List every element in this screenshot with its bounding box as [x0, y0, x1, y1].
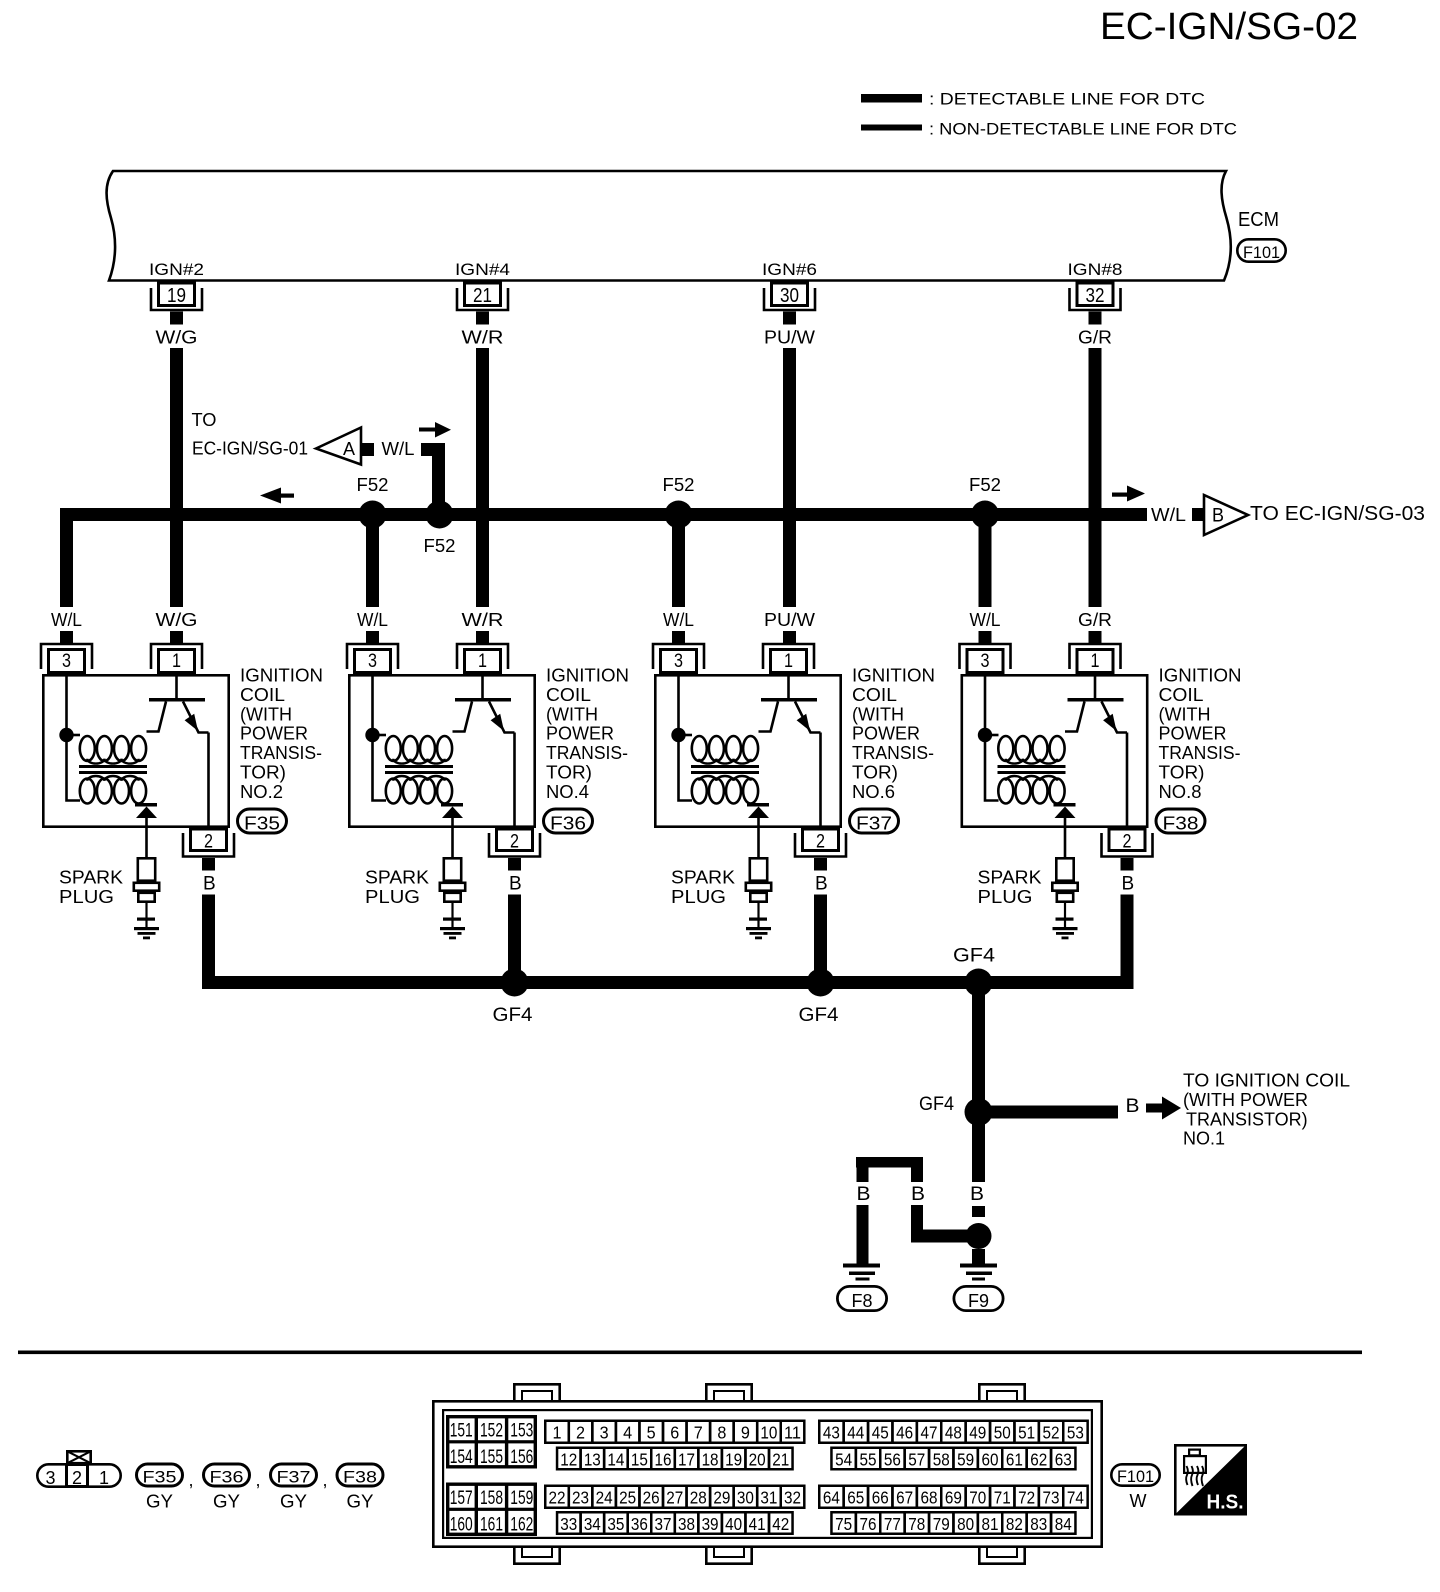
svg-text:26: 26 [643, 1488, 660, 1508]
wire W/L stub into coil pin 3 [979, 631, 992, 643]
junction F52 (2, W/L branch) [426, 501, 454, 529]
svg-text:GF4: GF4 [493, 1005, 533, 1026]
svg-text:TOR): TOR) [852, 763, 898, 783]
svg-text:153: 153 [510, 1421, 533, 1442]
wire secondary to spark plug [1064, 818, 1067, 857]
coil NO.8 pin 3 [960, 644, 1011, 673]
svg-text:GF4: GF4 [953, 946, 995, 967]
ground F9 [960, 1249, 997, 1281]
svg-text:W/L: W/L [970, 610, 1001, 630]
wire B U-link left leg (lower, to F8) [857, 1205, 869, 1266]
svg-text:GY: GY [347, 1492, 374, 1512]
reference text TO IGNITION COIL NO.1 [1183, 1071, 1350, 1149]
wire coil NO.4 pin 3 to secondary [373, 674, 387, 801]
off-page connector B [1204, 495, 1248, 535]
label IGNITION COIL NO.4 [546, 666, 629, 802]
coil NO.4 pin 3 [347, 644, 398, 673]
wire B coil NO.4 to ground bus [508, 895, 521, 977]
svg-text:A: A [343, 439, 355, 459]
svg-text:GY: GY [146, 1492, 173, 1512]
wire G/R from ECM pin to coil pin 1 [1089, 348, 1102, 607]
svg-text:F37: F37 [277, 1467, 311, 1486]
svg-text:32: 32 [784, 1488, 801, 1508]
svg-text:36: 36 [631, 1514, 648, 1534]
wire label G/R (top) [1078, 328, 1112, 348]
svg-text:TOR): TOR) [240, 763, 286, 783]
wire B U-link left leg (upper) [857, 1167, 869, 1182]
svg-text:13: 13 [584, 1450, 601, 1470]
svg-text:IGNITION: IGNITION [1159, 666, 1242, 686]
arrow right (bus toward B) [1112, 486, 1145, 502]
legend: detectable line for DTC [861, 90, 1205, 109]
wire label W/L (bus right end) [1151, 505, 1186, 525]
svg-text:(WITH: (WITH [240, 704, 292, 724]
svg-text:(WITH: (WITH [546, 704, 598, 724]
coil NO.6 secondary winding [692, 776, 758, 804]
svg-text:20: 20 [749, 1450, 766, 1470]
svg-text:2: 2 [204, 832, 213, 853]
coil NO.4 secondary winding [386, 776, 452, 804]
svg-text:2: 2 [510, 832, 519, 853]
svg-text:6: 6 [670, 1423, 679, 1443]
svg-text:157: 157 [450, 1488, 473, 1509]
svg-text:16: 16 [654, 1450, 671, 1470]
svg-text:160: 160 [450, 1515, 473, 1536]
svg-text:COIL: COIL [240, 685, 285, 705]
label GF4 (4) [919, 1094, 954, 1115]
wire label B (to NO.1) [1126, 1096, 1140, 1117]
svg-text:W/G: W/G [156, 610, 198, 630]
off-page connector A [316, 428, 361, 465]
ECM pin 30 (IGN#6) [762, 260, 817, 325]
wire label B (coil NO.6) [815, 874, 828, 895]
svg-text:82: 82 [1006, 1514, 1023, 1534]
wire B U-link to F9 junction [911, 1230, 968, 1243]
svg-text:GY: GY [213, 1492, 240, 1512]
coil NO.8 pin 1 [1070, 644, 1121, 673]
svg-text:83: 83 [1030, 1514, 1047, 1534]
svg-text:4: 4 [623, 1423, 632, 1443]
svg-text:69: 69 [945, 1488, 962, 1508]
svg-text:35: 35 [607, 1514, 624, 1534]
svg-text:F38: F38 [343, 1467, 377, 1486]
wire W/L bus left drop to coil NO.2 pin 3 [60, 508, 73, 607]
svg-text:5: 5 [647, 1423, 656, 1443]
svg-text:IGN#2: IGN#2 [149, 260, 204, 279]
secondary diode [135, 803, 157, 818]
svg-text:81: 81 [982, 1514, 999, 1534]
junction F52 (3) [665, 501, 693, 529]
svg-text:42: 42 [772, 1514, 789, 1534]
svg-text:B: B [970, 1184, 984, 1205]
svg-text:41: 41 [749, 1514, 766, 1534]
ground (spark plug) [1053, 927, 1078, 939]
wire label W/L (above coil pin 3) [51, 610, 82, 630]
svg-text:28: 28 [690, 1488, 707, 1508]
power transistor (coil NO.8) [1065, 674, 1127, 828]
power transistor (coil NO.6) [759, 674, 821, 828]
wire B U-link top bar [856, 1157, 923, 1168]
svg-text:19: 19 [725, 1450, 742, 1470]
wire coil NO.2 pin 3 to secondary [67, 674, 81, 801]
wire W/L branch (corner to bus) [421, 443, 445, 508]
wire W/R stub into coil pin 1 [476, 631, 489, 643]
svg-text:,: , [256, 1470, 261, 1490]
svg-text:: NON-DETECTABLE LINE FOR DTC: : NON-DETECTABLE LINE FOR DTC [929, 120, 1237, 139]
power transistor (coil NO.2) [147, 674, 209, 828]
svg-text:57: 57 [908, 1450, 925, 1470]
terminal square (B) [1192, 508, 1205, 521]
svg-text:IGN#4: IGN#4 [455, 260, 510, 279]
svg-text:F52: F52 [357, 475, 389, 495]
ECM pin 32 (IGN#8) [1068, 260, 1123, 325]
svg-text:B: B [1122, 874, 1135, 895]
coil NO.8 secondary winding [998, 776, 1064, 804]
wire label W/L (above coil pin 3) [357, 610, 388, 630]
label IGNITION COIL NO.2 [240, 666, 323, 802]
svg-text:1: 1 [1091, 651, 1100, 672]
label F52 (below junction 2) [424, 536, 456, 556]
connector F9 [954, 1286, 1003, 1311]
svg-text:F35: F35 [244, 813, 280, 833]
svg-text:31: 31 [760, 1488, 777, 1508]
wire label W/G (top) [156, 328, 198, 348]
coil NO.8 pin 2 [1102, 829, 1153, 871]
spark plug [134, 858, 159, 928]
label W [1130, 1491, 1147, 1511]
svg-text:2: 2 [816, 832, 825, 853]
label GY (F36) [213, 1492, 240, 1512]
svg-text:B: B [203, 874, 216, 895]
svg-text:71: 71 [994, 1488, 1011, 1508]
svg-text:58: 58 [933, 1450, 950, 1470]
coil connector pin view (3 2 1) [37, 1451, 120, 1488]
svg-text:F52: F52 [969, 475, 1001, 495]
svg-text:SPARK: SPARK [59, 868, 123, 888]
svg-text:F52: F52 [424, 536, 456, 556]
arrow to ignition coil NO.1 [1146, 1097, 1181, 1120]
svg-text:F36: F36 [210, 1467, 244, 1486]
connector F38 (coil NO.8) [1156, 809, 1205, 833]
spark plug [746, 858, 771, 928]
svg-text:EC-IGN/SG-01: EC-IGN/SG-01 [192, 439, 308, 459]
label F52 (above junction 3) [663, 475, 695, 495]
svg-text:PLUG: PLUG [59, 887, 114, 907]
coil NO.2 secondary winding [80, 776, 146, 804]
svg-text:F36: F36 [550, 813, 586, 833]
svg-text:W/L: W/L [663, 610, 694, 630]
coil NO.2 pin 2 [183, 829, 234, 871]
svg-text:NO.2: NO.2 [240, 782, 283, 802]
ground F8 [843, 1264, 880, 1281]
label GY (F38) [347, 1492, 374, 1512]
svg-text:SPARK: SPARK [978, 868, 1042, 888]
svg-text:H.S.: H.S. [1207, 1492, 1244, 1514]
svg-text:23: 23 [572, 1488, 589, 1508]
svg-text:F52: F52 [663, 475, 695, 495]
svg-text:74: 74 [1067, 1488, 1084, 1508]
svg-text:IGNITION: IGNITION [240, 666, 323, 686]
label SPARK PLUG [671, 868, 735, 907]
coil NO.4 pin 2 [489, 829, 540, 871]
label IGNITION COIL NO.6 [852, 666, 935, 802]
spark plug [1052, 858, 1077, 928]
svg-text:IGNITION: IGNITION [546, 666, 629, 686]
wire label W/R (above coil) [462, 610, 504, 630]
junction GF4 (1) [501, 969, 529, 997]
svg-text:14: 14 [607, 1450, 624, 1470]
svg-text:GF4: GF4 [919, 1094, 954, 1115]
ground (spark plug) [440, 927, 465, 939]
svg-text:2: 2 [72, 1468, 82, 1488]
wire label B (right leg) [911, 1184, 925, 1205]
ECM box [107, 171, 1231, 281]
svg-text:159: 159 [510, 1488, 533, 1509]
secondary diode [1054, 803, 1076, 818]
svg-text:62: 62 [1030, 1450, 1047, 1470]
coil NO.4 pin 1 [457, 644, 508, 673]
svg-text:F8: F8 [852, 1291, 873, 1311]
svg-text:52: 52 [1043, 1423, 1060, 1443]
wire label PU/W (top) [764, 328, 815, 348]
ignition coil NO.4 box [349, 675, 534, 826]
svg-text:1: 1 [99, 1468, 109, 1488]
wire W/G stub into coil pin 1 [170, 631, 183, 643]
separator line [18, 1351, 1362, 1355]
svg-text:PLUG: PLUG [671, 887, 726, 907]
svg-text:B: B [815, 874, 828, 895]
svg-text:56: 56 [884, 1450, 901, 1470]
coil NO.2 primary winding [67, 735, 147, 764]
svg-text:W/R: W/R [462, 610, 504, 630]
wire label W/L (above coil pin 3) [970, 610, 1001, 630]
svg-text:154: 154 [450, 1447, 473, 1468]
svg-text:46: 46 [896, 1423, 913, 1443]
svg-text:TOR): TOR) [1159, 763, 1205, 783]
label GF4 (3) [953, 946, 995, 967]
spark plug [440, 858, 465, 928]
svg-text:19: 19 [167, 285, 186, 307]
svg-text:PU/W: PU/W [764, 610, 815, 630]
svg-text:TOR): TOR) [546, 763, 592, 783]
label GF4 (2) [799, 1005, 839, 1026]
junction dot (primary tap) [365, 728, 379, 742]
label GF4 (1) [493, 1005, 533, 1026]
svg-text:50: 50 [994, 1423, 1011, 1443]
junction F52 (1) [359, 501, 387, 529]
svg-text:9: 9 [741, 1423, 750, 1443]
arrow left (on W/L bus) [260, 488, 294, 504]
svg-text:TRANSIS-: TRANSIS- [240, 743, 322, 763]
power transistor (coil NO.4) [453, 674, 515, 828]
svg-text:68: 68 [921, 1488, 938, 1508]
secondary diode [441, 803, 463, 818]
wire B drop toward F9 [972, 1119, 985, 1183]
wire secondary to spark plug [145, 818, 148, 857]
svg-text:12: 12 [560, 1450, 577, 1470]
svg-text:SPARK: SPARK [671, 868, 735, 888]
coil NO.4 primary winding [373, 735, 453, 764]
coil NO.2 pin 1 [151, 644, 202, 673]
wire B U-link right leg (lower) [911, 1205, 923, 1243]
svg-text:NO.8: NO.8 [1159, 782, 1202, 802]
wire PU/W from ECM pin to coil pin 1 [783, 348, 796, 607]
wire coil NO.6 pin 3 to secondary [679, 674, 693, 801]
svg-text:51: 51 [1018, 1423, 1035, 1443]
coil NO.6 primary winding [679, 735, 759, 764]
svg-text:59: 59 [957, 1450, 974, 1470]
svg-text:B: B [911, 1184, 925, 1205]
svg-text:73: 73 [1043, 1488, 1060, 1508]
svg-text:GF4: GF4 [799, 1005, 839, 1026]
svg-text:21: 21 [772, 1450, 789, 1470]
wire B coil NO.8 to ground bus [1121, 895, 1134, 990]
reference text TO EC-IGN/SG-03 [1250, 503, 1425, 525]
label F52 (above junction 1) [357, 475, 389, 495]
terminal square (A) [362, 443, 375, 456]
svg-text:54: 54 [835, 1450, 852, 1470]
svg-text:COIL: COIL [852, 685, 897, 705]
svg-text:55: 55 [860, 1450, 877, 1470]
svg-text:33: 33 [560, 1514, 577, 1534]
transformer core [385, 765, 453, 774]
coil NO.6 pin 1 [763, 644, 814, 673]
svg-text:15: 15 [631, 1450, 648, 1470]
svg-text:37: 37 [654, 1514, 671, 1534]
svg-text:7: 7 [694, 1423, 703, 1443]
svg-text:F9: F9 [968, 1291, 989, 1311]
svg-text:B: B [1126, 1096, 1140, 1117]
label SPARK PLUG [59, 868, 123, 907]
svg-text:2: 2 [1123, 832, 1132, 853]
svg-text:21: 21 [473, 285, 492, 307]
ECM pin 21 (IGN#4) [455, 260, 510, 325]
svg-text:GY: GY [280, 1492, 307, 1512]
wire label W/G (above coil) [156, 610, 198, 630]
svg-text:IGNITION: IGNITION [852, 666, 935, 686]
svg-text:48: 48 [945, 1423, 962, 1443]
svg-text:COIL: COIL [1159, 685, 1204, 705]
svg-text:43: 43 [823, 1423, 840, 1443]
svg-text:COIL: COIL [546, 685, 591, 705]
wire label B (left leg) [857, 1184, 871, 1205]
wire W/L drop at x=372 [366, 521, 379, 607]
svg-text:W/L: W/L [51, 610, 82, 630]
svg-text:1: 1 [784, 651, 793, 672]
svg-text:77: 77 [884, 1514, 901, 1534]
svg-text:18: 18 [702, 1450, 719, 1470]
wire label B (coil NO.2) [203, 874, 216, 895]
wire B coil NO.2 to ground bus [202, 895, 215, 977]
svg-text:3: 3 [981, 651, 990, 672]
wire W/L stub into coil pin 3 [672, 631, 685, 643]
svg-text:1: 1 [478, 651, 487, 672]
svg-text:2: 2 [576, 1423, 585, 1443]
reference text TO EC-IGN/SG-01 [192, 410, 309, 459]
svg-text:W: W [1130, 1491, 1147, 1511]
junction F52 (4) [971, 501, 999, 529]
connector F36 (bottom) [204, 1464, 250, 1486]
svg-text:NO.4: NO.4 [546, 782, 589, 802]
svg-text:8: 8 [717, 1423, 726, 1443]
ECM label [1238, 209, 1279, 231]
svg-text:79: 79 [933, 1514, 950, 1534]
label IGNITION COIL NO.8 [1159, 666, 1242, 802]
svg-text:,: , [189, 1470, 194, 1490]
svg-text:TO IGNITION COIL: TO IGNITION COIL [1183, 1071, 1350, 1091]
svg-text:TRANSIS-: TRANSIS- [546, 743, 628, 763]
svg-text:ECM: ECM [1238, 209, 1279, 231]
ignition coil NO.8 box [962, 675, 1147, 826]
label GY (F37) [280, 1492, 307, 1512]
svg-text:POWER: POWER [240, 724, 308, 744]
svg-text:TRANSIS-: TRANSIS- [1159, 743, 1241, 763]
svg-text:70: 70 [969, 1488, 986, 1508]
svg-text:TRANSISTOR): TRANSISTOR) [1186, 1109, 1308, 1129]
ECM pin 19 (IGN#2) [149, 260, 204, 325]
wire label B (F9 drop) [970, 1184, 984, 1205]
svg-text:TO: TO [192, 410, 217, 430]
ground (spark plug) [746, 927, 771, 939]
svg-text:1: 1 [172, 651, 181, 672]
svg-text:3: 3 [674, 651, 683, 672]
wire GF4 drop [972, 989, 985, 1106]
legend: non-detectable line for DTC [861, 120, 1237, 139]
junction GF4 (3) [965, 969, 993, 997]
svg-text:IGN#8: IGN#8 [1068, 260, 1123, 279]
svg-text:B: B [857, 1184, 871, 1205]
svg-text:67: 67 [896, 1488, 913, 1508]
label SPARK PLUG [365, 868, 429, 907]
svg-text:3: 3 [62, 651, 71, 672]
svg-text:17: 17 [678, 1450, 695, 1470]
wire coil NO.8 pin 3 to secondary [985, 674, 999, 801]
wire W/L drop at x=678 [672, 521, 685, 607]
wire label B (coil NO.4) [509, 874, 522, 895]
svg-text:27: 27 [666, 1488, 683, 1508]
svg-text:1: 1 [552, 1423, 561, 1443]
connector F38 (bottom) [337, 1464, 383, 1486]
connector F8 [837, 1286, 886, 1311]
wire label G/R (above coil) [1078, 610, 1112, 630]
svg-text:W/L: W/L [382, 439, 415, 459]
wire W/L stub into coil pin 3 [366, 631, 379, 643]
svg-text:G/R: G/R [1078, 610, 1112, 630]
svg-text:3: 3 [368, 651, 377, 672]
svg-text:45: 45 [872, 1423, 889, 1443]
junction dot (primary tap) [59, 728, 73, 742]
svg-text:B: B [1212, 506, 1224, 527]
svg-text:PLUG: PLUG [978, 887, 1033, 907]
connector F35 (bottom) [137, 1464, 183, 1486]
svg-text:76: 76 [860, 1514, 877, 1534]
label SPARK PLUG [978, 868, 1042, 907]
svg-text:SPARK: SPARK [365, 868, 429, 888]
svg-text:10: 10 [760, 1423, 777, 1443]
svg-text:PU/W: PU/W [764, 328, 815, 348]
ECM connector cells 43-84 [819, 1421, 1087, 1534]
svg-text:156: 156 [510, 1447, 533, 1468]
transformer core [998, 765, 1066, 774]
svg-text:32: 32 [1086, 285, 1105, 307]
svg-text:30: 30 [780, 285, 799, 307]
ECM connector housing [433, 1384, 1101, 1563]
svg-text:PLUG: PLUG [365, 887, 420, 907]
wire W/L stub into coil pin 3 [60, 631, 73, 643]
wire PU/W stub into coil pin 1 [783, 631, 796, 643]
connector F101 (bottom) [1111, 1464, 1159, 1486]
svg-text:44: 44 [847, 1423, 864, 1443]
